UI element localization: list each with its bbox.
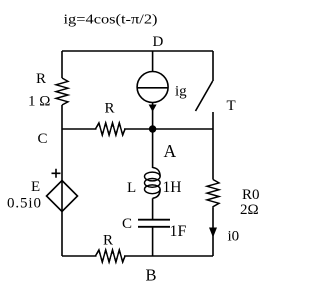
svg-text:C: C [38,131,48,147]
svg-text:T: T [227,98,236,114]
svg-text:L: L [127,180,136,196]
svg-text:1 Ω: 1 Ω [28,94,50,110]
svg-text:R: R [103,233,113,249]
svg-text:ig=4cos(t-π/2): ig=4cos(t-π/2) [64,12,158,27]
svg-text:R: R [105,101,115,117]
svg-text:ig: ig [175,84,187,100]
svg-text:C: C [122,216,132,232]
svg-text:2Ω: 2Ω [240,202,259,218]
svg-text:i0: i0 [228,229,240,245]
svg-text:0.5i0: 0.5i0 [7,196,41,212]
svg-text:R: R [36,71,46,87]
svg-text:1F: 1F [170,223,187,240]
svg-text:1H: 1H [163,179,182,196]
svg-text:R0: R0 [242,187,260,203]
svg-text:D: D [153,34,164,50]
svg-text:B: B [146,266,157,285]
svg-text:A: A [164,141,177,161]
svg-text:E: E [31,179,40,195]
